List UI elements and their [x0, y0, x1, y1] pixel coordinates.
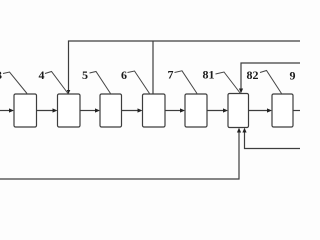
label 82 — [247, 68, 282, 94]
label 3 — [0, 68, 27, 94]
wire block 6 to block 7 — [165, 108, 185, 112]
wire block 5 to block 6 — [122, 108, 143, 112]
block 82 — [272, 94, 293, 127]
block 7 — [185, 94, 207, 127]
svg-text:7: 7 — [168, 68, 174, 82]
wire block 81 to block 82 — [249, 108, 273, 112]
svg-text:4: 4 — [39, 68, 45, 82]
block 6 — [143, 94, 166, 127]
wire bottom feedback from left edge into block 81 bottom — [0, 128, 241, 179]
block 3 — [14, 94, 37, 127]
svg-text:81: 81 — [203, 68, 215, 82]
label 6 — [121, 68, 150, 94]
label 7 — [168, 68, 198, 94]
label 5 — [82, 68, 111, 94]
wire block 82 output to right edge — [293, 110, 300, 112]
wire top feedback branch to block 6 — [152, 41, 154, 94]
block 81 — [228, 94, 249, 128]
wire block 7 to block 81 — [207, 108, 228, 112]
block 4 — [58, 94, 81, 127]
svg-text:5: 5 — [82, 68, 88, 82]
svg-text:82: 82 — [247, 68, 259, 82]
wire lower feedback from right edge into block 81 bottom — [242, 128, 300, 149]
label 9 — [290, 69, 296, 83]
wire top feedback line to block 4 — [67, 41, 300, 94]
wire chain input into block 3 — [0, 108, 14, 112]
svg-text:9: 9 — [290, 69, 296, 83]
wire block 3 to block 4 — [37, 108, 58, 112]
label 4 — [39, 68, 69, 94]
svg-text:3: 3 — [0, 68, 2, 82]
wire block 4 to block 5 — [80, 108, 100, 112]
wire second feedback from right edge into block 81 top — [239, 63, 300, 93]
label 81 — [203, 68, 241, 94]
svg-text:6: 6 — [121, 68, 127, 82]
block 5 — [100, 94, 122, 127]
